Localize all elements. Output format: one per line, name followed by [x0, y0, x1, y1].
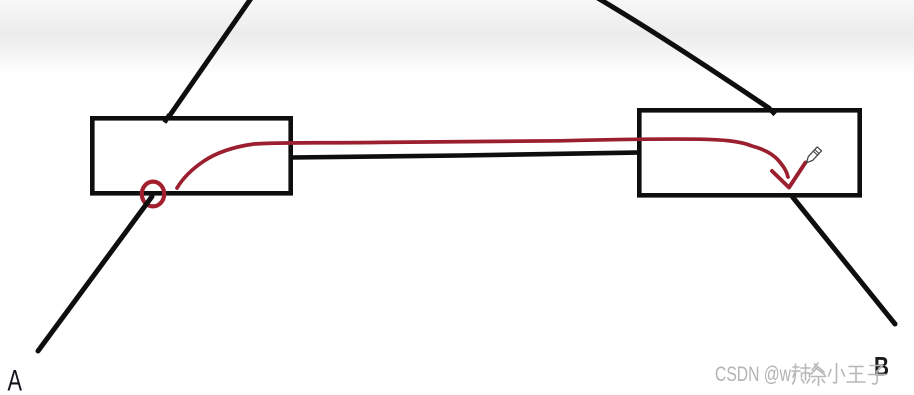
wire: horizontal link between box A and box B [291, 153, 640, 158]
wire nub: upper-left diagonal tip inside box A [165, 115, 170, 123]
pencil cursor icon [804, 147, 821, 165]
wire nub: upper-right diagonal tip inside box B [769, 108, 776, 115]
node A box [92, 118, 290, 193]
wire: red annotation stroke from circled point in box A across to box B [177, 139, 788, 188]
watermark hanzi (hand-drawn strokes): 辣条小王子 [792, 363, 887, 386]
svg-text:A: A [8, 365, 23, 395]
red check/arrow tip at end of annotation stroke [772, 163, 806, 188]
hanzi 辣 [792, 364, 810, 384]
hanzi 子 [869, 366, 887, 384]
svg-text:CSDN @w: CSDN @w [715, 363, 792, 386]
wire: lower-right diagonal from node B box down to label B [791, 195, 895, 324]
hanzi 条 [811, 363, 826, 386]
wire: lower-left diagonal from node A box down to label A [38, 197, 152, 352]
wire: upper-left diagonal into node A box [168, 0, 252, 118]
wire: upper-right diagonal into node B box [596, 0, 770, 109]
red circle highlighting start point on box A [142, 182, 164, 207]
hanzi 小 [829, 364, 845, 384]
node B box [639, 110, 859, 195]
hanzi 王 [847, 367, 865, 383]
